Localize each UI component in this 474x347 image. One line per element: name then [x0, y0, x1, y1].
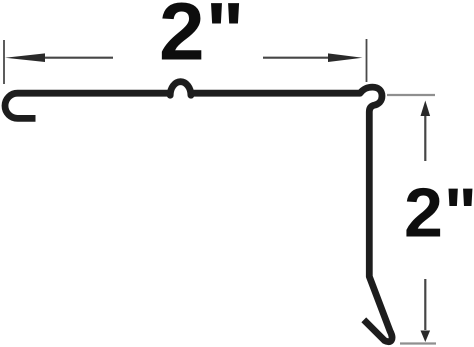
- svg-text:2": 2": [159, 0, 245, 78]
- extension line top (right dimension, gray): [387, 94, 435, 96]
- arrowhead right: [328, 53, 363, 62]
- arrowhead left: [5, 53, 45, 62]
- vertical dimension line upper segment: [424, 113, 426, 161]
- extension line bottom (right dimension, gray): [400, 342, 436, 344]
- dimension line right segment: [263, 57, 330, 59]
- arrowhead down: [421, 331, 431, 343]
- dimension line left segment: [40, 57, 113, 59]
- vertical dimension line lower segment: [424, 279, 426, 330]
- extension line right (top dimension): [366, 39, 368, 82]
- svg-text:2": 2": [404, 174, 474, 252]
- profile outline: left hem hook, top flange with rib bump, right curl, vertical face, bottom kick-out hook: [5, 82, 392, 342]
- arrowhead up: [421, 101, 431, 117]
- extension line left (top dimension): [3, 40, 5, 84]
